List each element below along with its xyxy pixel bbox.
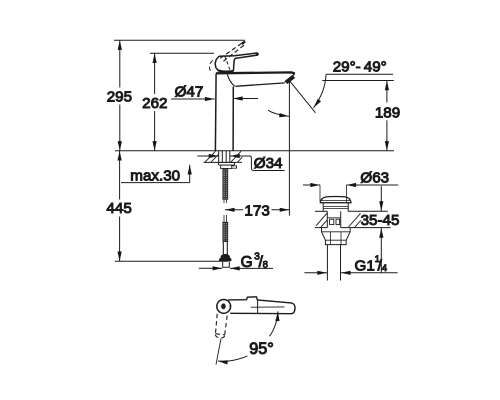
angle arc small (29 deg side) [268, 110, 289, 116]
dimension O34 [197, 155, 284, 172]
svg-text:G1: G1 [355, 258, 375, 275]
dimension 262 [142, 53, 167, 151]
dome cap [320, 197, 351, 203]
pivot dot [221, 303, 226, 309]
flexible hose upper segment [223, 169, 228, 204]
dimension 189 [375, 81, 400, 151]
countertop cross-section at faucet [204, 151, 243, 162]
pivot small dot [229, 305, 231, 307]
lever centre line [251, 306, 285, 308]
svg-text:295: 295 [107, 88, 132, 105]
faucet body neck fillet [227, 75, 235, 87]
G 3/8 dimension arrows [199, 252, 273, 271]
dimension 295 [107, 40, 132, 151]
dimension 173 [225, 202, 290, 219]
water stream direction line [289, 81, 315, 113]
dimension 35-45 [361, 186, 400, 273]
deck reference line [115, 150, 394, 152]
faucet body column [215, 73, 233, 150]
svg-text:G: G [241, 254, 253, 271]
handle hidden dashes inside cap [225, 56, 230, 70]
aerator [285, 75, 295, 83]
drain body through deck [327, 211, 340, 227]
threaded shank [219, 151, 230, 163]
angle arc large (49 deg side) [314, 74, 327, 108]
95 degree arc [218, 356, 248, 361]
hatch left [205, 151, 219, 162]
svg-text:189: 189 [375, 104, 400, 121]
G3/8 connector nut [219, 255, 231, 267]
dimension 445 [106, 151, 131, 261]
hatch right [231, 151, 242, 162]
washer under deck [218, 163, 234, 166]
dimension O47 [171, 84, 258, 101]
svg-text:Ø34: Ø34 [254, 155, 283, 172]
svg-text:8: 8 [263, 259, 268, 270]
spout outlet height reference line [322, 80, 394, 82]
handle raised position (dashed) [209, 42, 244, 73]
drain tailpipe [327, 245, 340, 281]
dimension O63 [303, 169, 398, 203]
dimension max.30 [121, 165, 190, 185]
svg-text:95°: 95° [249, 340, 273, 358]
bottom reference line 445 [115, 260, 228, 262]
reference line 262 [150, 52, 214, 54]
svg-text:262: 262 [142, 95, 167, 112]
svg-text:445: 445 [106, 200, 131, 217]
lever rotated position (dashed) [215, 314, 227, 338]
handle cap bottom (thick) [218, 70, 234, 71]
angle extension line [216, 339, 221, 365]
flexible hose lower segment [223, 215, 228, 255]
faucet spout [216, 72, 295, 86]
handle lever solid [215, 53, 259, 71]
sink deck cross-section at drain [315, 211, 391, 227]
svg-text:173: 173 [244, 202, 269, 219]
top reference line 295 [114, 39, 245, 41]
fitting neck flange [323, 203, 348, 212]
svg-text:29°- 49°: 29°- 49° [333, 59, 387, 76]
svg-text:Ø47: Ø47 [175, 84, 204, 101]
svg-text:4: 4 [382, 263, 387, 274]
drain locknut [322, 228, 351, 245]
pivot circle [217, 300, 231, 314]
svg-text:Ø63: Ø63 [360, 169, 389, 186]
raised lever tip (solid) [242, 41, 246, 45]
lever bar [228, 297, 295, 314]
mounting nut [221, 165, 232, 169]
29-49 label underline [326, 73, 393, 75]
dimension G1 1/4 [304, 254, 397, 275]
spout outlet vertical extension line [288, 81, 290, 216]
svg-text:max.30: max.30 [130, 167, 180, 184]
svg-text:35-45: 35-45 [361, 212, 400, 229]
